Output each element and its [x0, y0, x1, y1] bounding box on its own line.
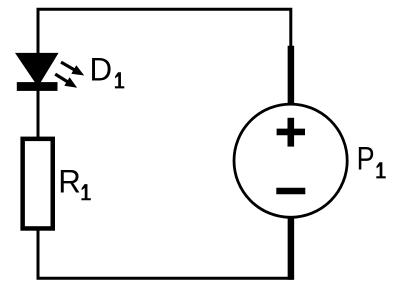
svg-text:D: D — [89, 51, 112, 87]
svg-text:P: P — [357, 141, 375, 177]
svg-text:R: R — [58, 163, 81, 199]
